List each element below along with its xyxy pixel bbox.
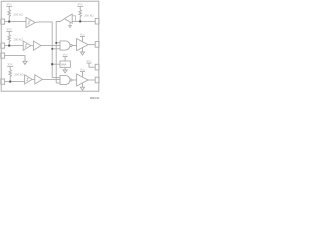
bubble G2 <box>70 79 72 81</box>
bus C tap to gate G1 <box>56 42 60 44</box>
hysteresis mark U3A <box>26 78 28 81</box>
resistor R2 <box>8 35 11 42</box>
pin box OUT2 (right mid) <box>95 42 99 48</box>
junction node dots <box>8 20 81 82</box>
labels <box>7 2 92 71</box>
node bus A / G1 tap <box>51 48 53 50</box>
output amp U5 <box>77 39 88 51</box>
wire U5 to pin box OUT2 <box>88 44 95 46</box>
logic box (reference) <box>60 61 70 67</box>
input stub U4 <box>72 16 75 22</box>
wire U2A to U2B <box>31 45 34 47</box>
wire node B to comparator U4 input <box>72 20 80 22</box>
svg-text:200 kΩ: 200 kΩ <box>84 14 94 18</box>
frame border <box>1 1 99 91</box>
wire U3B output to gate G2 <box>42 78 60 80</box>
pin box IN2 (left) <box>1 43 5 48</box>
wire R3 to node <box>9 77 11 82</box>
comparator U1 (top) <box>26 17 35 27</box>
wire IN1 to comparator U1 <box>5 21 26 23</box>
resistor R4 <box>79 10 82 17</box>
svg-text:0643-01: 0643-01 <box>90 96 100 100</box>
pin box OUT1 (right top) <box>95 18 99 24</box>
wire U6 to pin box OUT3 <box>88 79 95 81</box>
node B (R4) <box>79 20 81 22</box>
wire R1 to node <box>8 17 10 22</box>
wire IN3 to buffer pair 2 <box>5 81 25 83</box>
wire U4 output to bus C <box>56 19 64 83</box>
node IN2/R2 <box>8 45 10 47</box>
bubble G1 <box>70 44 72 46</box>
power rail VCC2 (mid-left) <box>6 31 12 35</box>
buffer U2B <box>33 41 41 50</box>
ground under U5 <box>80 48 84 55</box>
bus A tap to gate G1 <box>52 48 60 50</box>
power rail VCC6 over U5 <box>80 37 85 42</box>
NAND gate G1 <box>60 41 70 50</box>
resistor R3 <box>9 70 12 77</box>
node IN3/R3 <box>9 81 11 83</box>
ground under U6 <box>80 83 84 90</box>
ground arrow under logic box <box>63 67 67 73</box>
pin box IN3 (left) <box>1 79 5 84</box>
wire GND pin <box>5 56 25 62</box>
wire R2 to node <box>8 42 10 46</box>
hysteresis mark U1 <box>28 21 31 24</box>
wire U3A to U3B <box>32 78 35 80</box>
ground arrow (GND pin) <box>23 61 27 64</box>
wire G1 to output amp <box>72 45 77 47</box>
hysteresis mark U2A <box>25 44 27 47</box>
resistor R1 <box>8 10 11 17</box>
node IN1/R1 <box>8 21 10 23</box>
svg-text:200 kΩ: 200 kΩ <box>14 72 24 76</box>
svg-text:ANA: ANA <box>61 63 67 67</box>
NAND gate G2 <box>60 75 70 84</box>
power rail VCC4 (top-right) <box>77 6 83 10</box>
pin box IN1 (left) <box>1 19 5 24</box>
svg-text:200 kΩ: 200 kΩ <box>13 12 23 16</box>
power rail VCC1 (top-left) <box>6 6 12 10</box>
power rail VCC8 (right, supply pin) <box>87 63 92 67</box>
svg-text:200 kΩ: 200 kΩ <box>13 37 23 41</box>
wire U2B output to gate G1 <box>41 45 60 47</box>
wire node B to pin box <box>80 20 95 22</box>
bus A end into gate G2 <box>52 77 60 79</box>
power rail VCC5 over logic box <box>63 57 68 61</box>
output amp U6 <box>77 74 88 86</box>
node bus A / logic box tap <box>51 63 53 65</box>
comparator U4 (points left) <box>64 14 72 23</box>
schmitt buffer U2A <box>23 41 31 50</box>
power rail VCC7 over U6 <box>80 72 85 77</box>
ground stub U4 <box>69 22 72 28</box>
power rail VCC3 (bottom-left) <box>7 66 13 70</box>
wire VCC8 to pin box VDD <box>89 66 95 68</box>
pin box VDD (right) <box>95 64 99 70</box>
wire R4 to node B <box>79 17 81 22</box>
pin box OUT3 (right bottom) <box>95 77 99 83</box>
buffer U3B <box>35 75 43 84</box>
node bus C / G1 tap <box>55 42 57 44</box>
pin box GND (left) <box>1 53 5 58</box>
background <box>0 0 100 100</box>
wire U1 output to bus A <box>35 22 52 78</box>
schmitt buffer U3A <box>25 75 33 84</box>
wire G2 to output amp U6 <box>72 79 77 81</box>
bus C end into gate G2 <box>56 82 60 84</box>
bus A tap to logic box <box>52 63 60 65</box>
wire IN2 to buffer pair <box>5 45 24 47</box>
